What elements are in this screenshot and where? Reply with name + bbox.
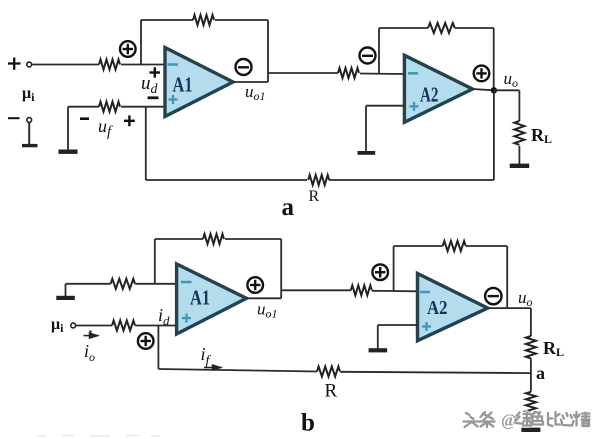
wire: RLb bottom lead to node a bbox=[530, 358, 532, 373]
op-amp A1 (circuit a) bbox=[165, 48, 233, 117]
wire: B A2 feedback top right segment bbox=[466, 245, 507, 247]
wire: B stage link left segment bbox=[281, 289, 351, 291]
label: A2 noninverting mark bbox=[410, 102, 419, 111]
svg-text:a: a bbox=[536, 363, 545, 383]
resistor R2a (uf branch resistor) bbox=[99, 102, 120, 112]
wire: A2 feedback top left segment bbox=[379, 27, 428, 29]
wire: A2 noninverting down to ground bbox=[365, 106, 367, 152]
wire: B A1 feedback left vertical bbox=[154, 239, 156, 284]
wire: A1 feedback right vertical down to output bbox=[267, 20, 269, 82]
resistor R1a (series input resistor, circuit a) bbox=[99, 60, 120, 70]
ground: uf branch ground bar bbox=[59, 150, 78, 154]
resistor Rf1a (A1 feedback resistor) bbox=[193, 15, 214, 25]
label: + of uf bbox=[124, 115, 135, 126]
wire: B input terminal to resistor bbox=[76, 325, 112, 327]
ground: A2 noninverting ground bar bbox=[358, 151, 376, 155]
ground: bottom ground bar bbox=[521, 428, 540, 432]
wire: stage link left segment bbox=[268, 72, 338, 74]
label: B A2 noninverting mark bbox=[422, 322, 431, 331]
wire: id node down to if wire bbox=[157, 326, 159, 370]
wire: A2 noninverting input horizontal bbox=[366, 105, 404, 107]
symbol: circled plus at A2 output bbox=[474, 66, 490, 82]
wire: if bottom right segment bbox=[340, 372, 531, 373]
wire: B ground up to inverting wire bbox=[65, 284, 67, 296]
wire: feedback vertical from output node down bbox=[493, 90, 495, 180]
ground: source ground bar bbox=[22, 144, 38, 147]
label: - of uf bbox=[80, 117, 89, 120]
ground: B A2 noninverting ground bar bbox=[369, 348, 388, 352]
terminal: ui - terminal circle bbox=[27, 118, 32, 123]
wire: uf ground up to uf wire bbox=[67, 107, 69, 150]
label: A1 noninverting mark bbox=[169, 95, 178, 104]
wire: RLb top lead bbox=[530, 308, 532, 336]
resistor Rf2a (A2 feedback resistor) bbox=[428, 23, 455, 33]
wire: B A1 feedback right vertical bbox=[280, 239, 282, 298]
wire: A2 output to node bbox=[473, 89, 494, 90]
resistor RL (load, circuit b) bbox=[526, 336, 536, 358]
wire: B A2 output to uo corner bbox=[488, 307, 531, 309]
label: A2 inverting mark bbox=[408, 72, 418, 75]
svg-text:R: R bbox=[325, 381, 338, 402]
symbol: if arrow bbox=[204, 367, 222, 369]
wire: A1 output to feedback corner bbox=[233, 81, 268, 83]
symbol: circled minus at B A2 output bbox=[485, 288, 501, 304]
symbol: circled plus at B A1 output bbox=[247, 277, 263, 293]
symbol: io arrow dot bbox=[89, 330, 91, 332]
wire: B A2 feedback top left segment bbox=[394, 245, 443, 247]
watermark: toutiao text bbox=[464, 412, 590, 427]
resistor R3a (interstage resistor) bbox=[338, 68, 359, 78]
svg-text:A1: A1 bbox=[190, 286, 210, 310]
svg-text:A1: A1 bbox=[173, 73, 193, 97]
label: + of source bbox=[8, 58, 21, 70]
svg-text:@: @ bbox=[501, 411, 517, 430]
symbol: io arrow bbox=[84, 335, 99, 337]
svg-text:a: a bbox=[282, 194, 295, 221]
wire: uf resistor to A1 noninverting input bbox=[121, 106, 165, 108]
wire: B input resistor to A1 noninverting bbox=[135, 325, 176, 327]
svg-text:b: b bbox=[301, 410, 315, 437]
wire: A2 feedback top right segment bbox=[455, 27, 494, 29]
op-amp A2 (circuit a) bbox=[404, 55, 472, 122]
wire: B A1 feedback top left segment bbox=[155, 238, 203, 240]
wire: B inverting wire left segment bbox=[66, 283, 111, 285]
op-amp A1 (circuit b) bbox=[177, 264, 247, 334]
symbol: circled plus at B A2 input bbox=[372, 264, 388, 280]
label: B A2 inverting mark bbox=[420, 291, 430, 294]
wire: B A2 feedback right vertical bbox=[506, 246, 508, 308]
label: A1 inverting mark bbox=[168, 63, 179, 66]
resistor R (feedback, circuit b) bbox=[317, 367, 340, 377]
resistor RL (load, circuit a) bbox=[514, 121, 524, 145]
wire: B A1 output to corner bbox=[247, 297, 282, 299]
node: feedback tap on upper input wire bbox=[140, 64, 142, 66]
label: - of ud bbox=[148, 96, 159, 99]
resistor Rf1b (A1 feedback, circuit b) bbox=[203, 234, 224, 244]
wire: RL top lead bbox=[518, 90, 520, 121]
symbol: circled minus at A2 input bbox=[360, 48, 376, 64]
wire: - terminal down to ground bbox=[28, 123, 30, 145]
wire: resistor R1a to A1 inverting input bbox=[121, 64, 165, 66]
wire: uf wire left segment bbox=[68, 106, 99, 108]
svg-text:A2: A2 bbox=[427, 297, 448, 319]
resistor Rf2b (A2 feedback, circuit b) bbox=[443, 241, 466, 251]
resistor R4b (below node a) bbox=[526, 392, 536, 413]
label: B A1 noninverting mark bbox=[182, 314, 191, 323]
label: + of ud bbox=[150, 67, 161, 77]
svg-text:A2: A2 bbox=[420, 83, 439, 107]
resistor R1b (inverting input resistor, circuit b) bbox=[111, 279, 135, 289]
wire: B A2 noninverting down to ground bbox=[377, 325, 379, 349]
watermark: white halo under toutiao text bbox=[464, 412, 590, 427]
wire: lower resistor to ground bbox=[530, 413, 532, 428]
wire: B A2 feedback left vertical bbox=[393, 246, 395, 291]
wire: B A1 feedback top right segment bbox=[225, 238, 281, 240]
wire: B stage link right segment bbox=[372, 290, 418, 293]
op-amp A2 (circuit b) bbox=[418, 274, 488, 341]
wire: A1 feedback top right segment bbox=[215, 19, 268, 21]
wire: A1 feedback left vertical bbox=[140, 20, 142, 65]
wire: input + terminal to resistor R1a bbox=[32, 64, 100, 66]
wire: if bottom left segment bbox=[158, 369, 317, 372]
wire: A2 feedback right vertical bbox=[493, 28, 495, 90]
ground: RL ground bar bbox=[510, 164, 530, 168]
resistor R (feedback, circuit a) bbox=[308, 175, 329, 185]
wire: node to RL branch bbox=[494, 89, 520, 91]
wire: bottom feedback right segment bbox=[329, 179, 494, 181]
wire: A1 feedback top left segment bbox=[141, 19, 193, 21]
wire: RL bottom lead bbox=[518, 146, 520, 164]
label: B A1 inverting mark bbox=[181, 281, 192, 284]
wire: A2 feedback left vertical bbox=[378, 28, 380, 74]
ground: B inverting input ground bar bbox=[56, 296, 75, 300]
wire: B inverting wire right segment bbox=[135, 283, 176, 285]
wire: B A2 noninverting horizontal bbox=[378, 324, 418, 326]
wire: stage link right segment to A2 input bbox=[360, 73, 404, 76]
wire: feedback left vertical up to uf node bbox=[145, 107, 147, 180]
node: output node dot bbox=[491, 87, 497, 93]
resistor R3b (interstage resistor, circuit b) bbox=[351, 285, 372, 295]
label: - of source bbox=[8, 117, 20, 119]
wire: bottom feedback left segment bbox=[146, 179, 307, 181]
decorative faint bottom text remnants bbox=[36, 435, 160, 438]
symbol: circled plus at input node bbox=[120, 41, 136, 57]
terminal: B input terminal circle bbox=[71, 323, 76, 328]
svg-text:R: R bbox=[309, 188, 320, 205]
resistor R2b (source resistor, circuit b) bbox=[112, 321, 135, 331]
symbol: circled plus below id node bbox=[138, 333, 154, 349]
wire: node a down to lower resistor bbox=[530, 373, 532, 392]
symbol: circled minus at A1 output bbox=[236, 59, 252, 75]
terminal: ui + terminal circle bbox=[27, 62, 32, 67]
